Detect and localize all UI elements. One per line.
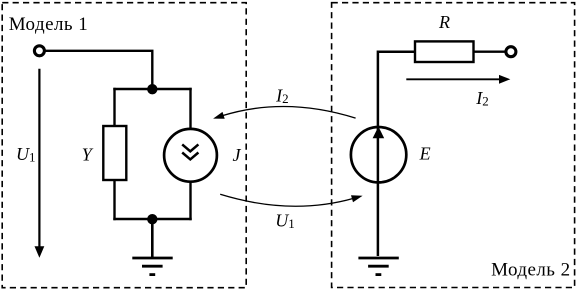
model 1 dashed boundary box — [2, 3, 246, 288]
wire Y branch upper — [113, 88, 115, 126]
current source J circle — [164, 129, 217, 182]
node junction bottom — [147, 214, 157, 224]
mapping arrow U1 (curved, J to E) — [220, 194, 362, 206]
current arrow I2 straight — [406, 75, 510, 84]
wire through E source — [377, 126, 380, 184]
node junction top — [147, 84, 157, 94]
terminal (open circle) left model — [34, 46, 44, 56]
svg-text:R: R — [438, 12, 450, 32]
svg-text:J: J — [233, 145, 242, 165]
wire top bus — [113, 88, 191, 90]
admittance Y box — [103, 126, 126, 180]
svg-text:Модель 1: Модель 1 — [9, 14, 88, 35]
svg-text:E: E — [419, 144, 431, 164]
ground model 1 — [132, 258, 172, 275]
resistor R box — [415, 41, 474, 62]
wire from terminal to top node — [45, 51, 152, 86]
current source J chevron 1 — [182, 144, 198, 151]
emf source E circle — [351, 127, 406, 182]
wire bottom bus — [113, 218, 191, 220]
wire ground stem model 1 — [151, 219, 154, 258]
wire J branch lower — [189, 181, 191, 220]
current source J chevron 2 — [182, 153, 198, 160]
voltage arrow U1 — [35, 69, 45, 258]
ground model 2 — [358, 258, 398, 275]
model 2 dashed boundary box — [332, 3, 575, 288]
emf E arrowhead — [373, 127, 385, 139]
terminal (open circle) right model — [506, 47, 516, 57]
wire resistor to terminal — [474, 51, 506, 53]
wire Y branch lower — [113, 180, 115, 220]
wire main vertical branch model 2 — [378, 52, 415, 256]
wire J branch upper — [189, 88, 191, 130]
mapping arrow I2 (curved, E to J) — [213, 106, 356, 118]
svg-text:Модель 2: Модель 2 — [491, 260, 570, 281]
